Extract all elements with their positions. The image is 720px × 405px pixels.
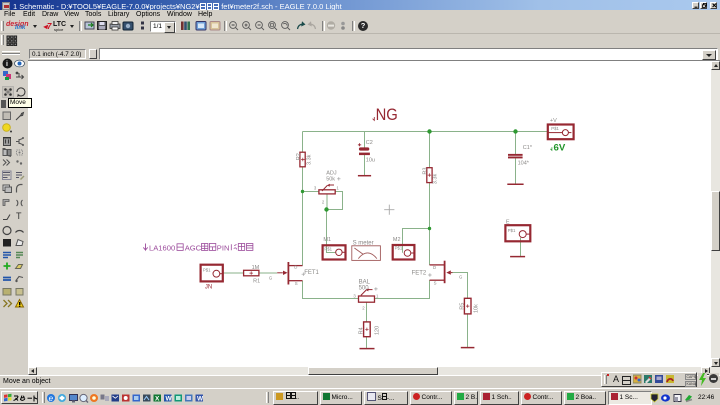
title bar: [0, 0, 720, 10]
resistor R3: [427, 168, 432, 183]
svg-text:e: e: [49, 393, 54, 402]
svg-text:3.3k: 3.3k: [432, 174, 438, 185]
potentiometer ADJ body: [319, 184, 335, 194]
ground below R5: [461, 347, 475, 349]
junction dot C1 top: [513, 129, 517, 133]
svg-text:R2: R2: [296, 153, 302, 160]
connector pad M2: [393, 245, 415, 260]
junction dot R2 bottom node: [301, 190, 304, 193]
svg-text:500: 500: [359, 286, 370, 292]
origin mark 6V: [550, 147, 552, 150]
note LA1600 AGC (purple): [143, 244, 253, 253]
svg-text:P$1: P$1: [395, 246, 403, 251]
svg-text:P$1: P$1: [508, 228, 516, 233]
svg-text:D: D: [433, 265, 436, 270]
wire ADJ pin 1 loop: [327, 192, 343, 210]
wire left rail upper: [302, 132, 304, 153]
svg-text:10k: 10k: [474, 304, 480, 313]
potentiometer BAL body: [359, 288, 375, 302]
svg-text:G: G: [459, 274, 463, 279]
left tool palette: [0, 56, 28, 375]
svg-text:P$1: P$1: [551, 126, 559, 131]
svg-text:R1: R1: [253, 279, 260, 285]
start button: [1, 391, 38, 404]
svg-text:M2: M2: [393, 237, 401, 243]
wire JN to R1: [223, 272, 244, 274]
supply pad +V: [548, 125, 574, 140]
origin cross ADJ: [337, 177, 340, 180]
wire R5 to ground: [467, 314, 469, 347]
library icon: [181, 22, 184, 31]
sheet origin crosshair: [384, 205, 394, 215]
menu bar: [0, 10, 720, 19]
transistor FET1 (JFET): [277, 262, 302, 285]
junction dot R3 top: [427, 129, 431, 133]
wire M2 branch: [403, 229, 430, 253]
connector pad JN: [201, 265, 223, 282]
svg-text:1: 1: [376, 293, 379, 298]
ground below R4: [360, 348, 375, 350]
svg-text:C1*: C1*: [523, 145, 533, 151]
wire FET1 source to BAL pin 3: [303, 281, 359, 299]
toolbar row 1: [0, 19, 720, 34]
svg-text:10u: 10u: [366, 158, 375, 164]
save icon: [98, 22, 107, 30]
svg-text:R5: R5: [459, 303, 465, 310]
resistor R1: [244, 270, 259, 276]
svg-text:104*: 104*: [518, 160, 530, 166]
svg-text:1: 1: [336, 185, 339, 190]
wire left rail lower: [302, 167, 304, 266]
wire E pad to ground: [520, 238, 522, 257]
origin mark NG: [373, 117, 375, 120]
svg-text:2: 2: [322, 200, 325, 205]
wire FET2 source to BAL pin 1: [375, 280, 430, 298]
taskbar: [0, 388, 720, 405]
connector pad M1: [323, 245, 346, 259]
svg-text:3: 3: [353, 293, 356, 298]
svg-text:C2: C2: [366, 140, 373, 146]
wire R4 to ground: [366, 337, 368, 349]
ground below C1: [507, 183, 523, 185]
svg-text:+V: +V: [550, 118, 557, 124]
wire R3 rail lower: [429, 183, 431, 265]
wire C2 leads: [364, 132, 366, 176]
undo / redo: [298, 24, 304, 29]
wire VCC top rail: [303, 131, 548, 133]
h scrollbar: [28, 367, 720, 375]
canvas: [0, 60, 720, 61]
ground below E: [510, 256, 525, 258]
svg-text:50k: 50k: [326, 177, 335, 183]
svg-text:D: D: [294, 264, 297, 269]
junction dot M2 branch node: [428, 227, 431, 230]
origin cross FET2: [428, 273, 431, 276]
svg-text:R4: R4: [358, 327, 364, 334]
wire R1 to FET1 gate: [259, 272, 277, 274]
svg-text:1M: 1M: [252, 265, 260, 271]
wire C1 leads: [515, 132, 517, 184]
tray: [650, 393, 695, 403]
transistor FET2 (JFET, mirrored): [430, 261, 453, 284]
svg-text:R3: R3: [422, 168, 428, 175]
svg-text:2: 2: [362, 306, 365, 311]
svg-text:S: S: [434, 280, 437, 285]
resistor R4: [364, 322, 371, 337]
svg-text:3.3k: 3.3k: [306, 154, 312, 165]
open icon: [85, 22, 94, 29]
resistor R5: [464, 298, 471, 314]
svg-text:S: S: [295, 281, 298, 286]
1/1 combo: [150, 21, 176, 32]
tooltip Move: [8, 98, 32, 108]
svg-text:X: X: [155, 395, 160, 402]
svg-text:P$1: P$1: [324, 246, 332, 251]
capacitor C2 (polarized): [358, 143, 370, 155]
sheet icons: [196, 22, 206, 31]
coordinate row: [0, 47, 720, 61]
svg-text:E: E: [506, 220, 510, 226]
scale icon: [141, 22, 144, 25]
junction dot ADJ wiper node: [324, 207, 328, 211]
svg-text:PIN: PIN: [217, 244, 230, 253]
svg-text:AGC: AGC: [185, 244, 202, 253]
svg-text:W: W: [166, 395, 173, 402]
svg-text:6V: 6V: [554, 143, 566, 154]
task buttons: [273, 391, 318, 405]
svg-text:JN: JN: [205, 285, 212, 291]
quick launch: [46, 393, 208, 403]
svg-text:3: 3: [314, 185, 317, 190]
svg-text:BAL: BAL: [359, 279, 371, 285]
svg-text:W: W: [197, 395, 204, 402]
wire to ADJ pin 3: [303, 191, 319, 193]
svg-text:FET2: FET2: [412, 270, 427, 276]
svg-text:NG: NG: [376, 105, 398, 124]
IME bar: [601, 372, 697, 387]
svg-text:120: 120: [375, 326, 381, 335]
svg-text:G: G: [269, 275, 273, 280]
origin cross FET1: [302, 273, 305, 276]
svg-text:S meter: S meter: [353, 240, 374, 246]
svg-text:FET1: FET1: [304, 270, 319, 276]
wire to M1: [327, 210, 336, 253]
wire FET2 gate to R5: [453, 273, 468, 299]
toolbar row 2 (grid button): [0, 34, 720, 47]
ground below C2: [358, 175, 371, 177]
resistor R2: [300, 152, 305, 167]
wire R3 rail upper: [429, 132, 431, 168]
cam icon: [123, 22, 133, 30]
status bar: [0, 375, 720, 388]
capacitor C1: [508, 154, 523, 159]
svg-text:LA1600: LA1600: [149, 244, 175, 253]
v scrollbar: [711, 61, 720, 367]
origin cross BAL: [374, 287, 377, 290]
connector pad E: [505, 225, 530, 241]
print icon: [110, 24, 120, 29]
meter S meter: [352, 246, 381, 261]
wire ADJ wiper down: [326, 194, 328, 210]
wire BAL wiper to R4: [366, 302, 368, 322]
svg-text:M1: M1: [323, 237, 331, 243]
svg-text:P$1: P$1: [203, 267, 211, 272]
